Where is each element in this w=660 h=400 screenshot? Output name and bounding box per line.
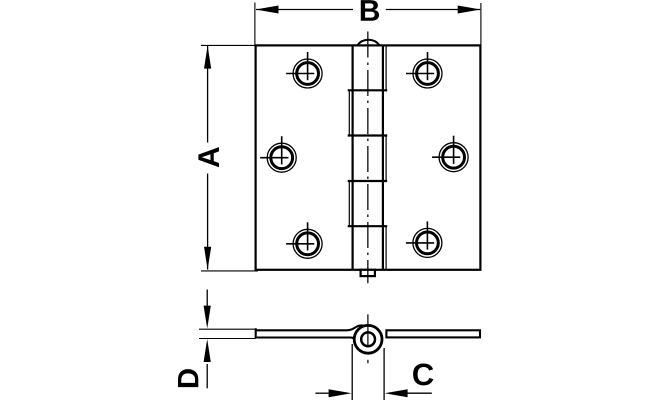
dimension C line right <box>407 392 432 394</box>
screw hole bottom-left <box>286 222 322 258</box>
label A <box>198 147 219 167</box>
pin bottom tip <box>361 270 375 276</box>
dimension D arrowhead up <box>204 339 211 362</box>
knuckle left outline <box>352 45 354 269</box>
knuckle cutout line right segment 1 <box>385 45 387 90</box>
dimension B extension line left <box>254 3 256 46</box>
dimension C arrowhead left-pointing <box>385 389 408 397</box>
dimension B line left segment <box>256 9 353 11</box>
screw hole bottom-right <box>406 221 442 257</box>
dimension A line lower <box>207 174 209 270</box>
screw hole middle-left <box>260 136 296 172</box>
knuckle divider 1 <box>348 89 388 91</box>
dimension D line lower <box>206 364 208 388</box>
knuckle divider 4 <box>348 225 388 227</box>
left leaf side view end cap <box>255 328 257 338</box>
left leaf side view bottom edge <box>256 338 358 342</box>
hinge plate front view <box>256 45 481 269</box>
dimension C arrowhead right-pointing <box>329 389 352 397</box>
knuckle divider 2 <box>348 134 388 136</box>
dimension D extension line top <box>199 328 256 330</box>
screw hole top-left <box>286 52 322 88</box>
dimension C extension line right <box>383 348 385 400</box>
dimension B arrowhead right <box>458 6 481 14</box>
pin inner circle side view <box>361 332 375 346</box>
screw hole middle-right <box>432 136 468 172</box>
dimension C extension line left <box>351 344 353 400</box>
dimension C line left <box>315 392 330 394</box>
dimension B extension line right <box>480 3 482 45</box>
label D <box>178 369 198 387</box>
knuckle right outline <box>382 45 384 269</box>
dimension B arrowhead left <box>256 6 279 14</box>
left leaf side view top edge <box>256 325 364 330</box>
screw hole top-right <box>406 52 442 88</box>
label B <box>361 0 379 21</box>
knuckle cutout line right segment 3 <box>385 136 387 182</box>
dimension A arrowhead down <box>204 247 211 270</box>
pin head dome <box>357 40 379 46</box>
knuckle cutout line left segment 4 <box>348 181 350 226</box>
knuckle divider 3 <box>348 180 388 182</box>
dimension A extension line bottom <box>201 270 258 272</box>
knuckle cutout line right segment 5 <box>385 226 387 270</box>
dimension D extension line bottom <box>199 338 256 340</box>
pin centerline side view <box>367 314 369 345</box>
knuckle cutout line left segment 2 <box>348 90 350 135</box>
dimension D arrowhead down <box>204 306 211 329</box>
dimension A line upper <box>207 46 209 143</box>
right leaf side view <box>386 330 480 337</box>
pin centerline dot side view <box>367 360 369 364</box>
dimension A extension line top <box>201 44 255 46</box>
pin centerline front view <box>367 32 369 284</box>
dimension D line upper <box>206 290 208 309</box>
knuckle barrel outer circle side view <box>354 325 382 353</box>
dimension A arrowhead up <box>204 46 211 69</box>
dimension B line right segment <box>386 9 480 11</box>
label C <box>413 363 433 385</box>
